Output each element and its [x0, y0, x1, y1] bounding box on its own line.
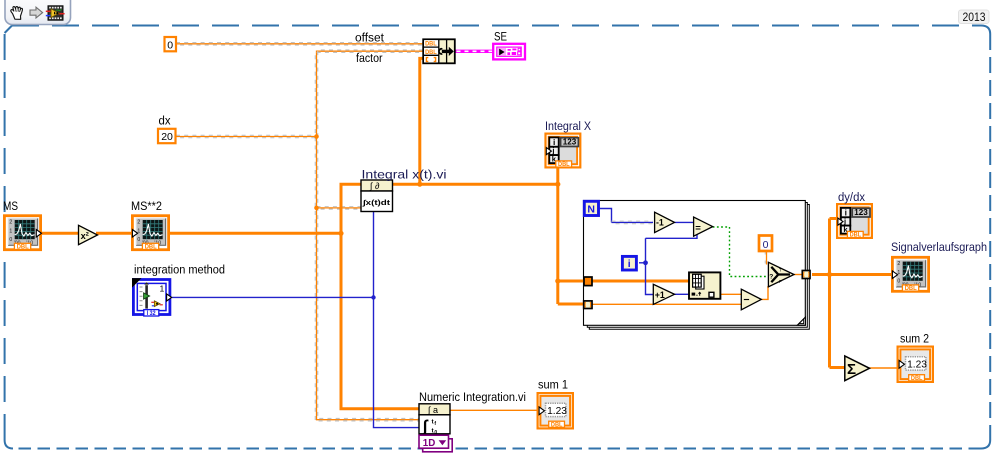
svg-text:sum 2: sum 2	[900, 332, 929, 346]
svg-text:dx: dx	[159, 114, 171, 128]
svg-text:offset: offset	[355, 31, 385, 45]
svg-text:+1: +1	[655, 290, 665, 300]
svg-text:I 32: I 32	[147, 311, 157, 317]
svg-text:MS**2: MS**2	[131, 199, 162, 213]
svg-text:Numeric Integration.vi: Numeric Integration.vi	[419, 390, 526, 404]
svg-text:Signalverlaufsgraph: Signalverlaufsgraph	[891, 240, 987, 254]
svg-text:integration method: integration method	[134, 263, 225, 277]
svg-text:-1: -1	[656, 218, 664, 228]
svg-text:∫x(t)dt: ∫x(t)dt	[362, 198, 391, 207]
svg-text:?: ?	[769, 273, 773, 280]
svg-text:sum 1: sum 1	[538, 377, 568, 391]
svg-text:DBL: DBL	[425, 49, 437, 56]
svg-text:2013: 2013	[963, 10, 986, 24]
svg-text:MS: MS	[3, 199, 18, 213]
svg-text:factor: factor	[356, 51, 383, 65]
svg-text:Σ: Σ	[847, 361, 856, 378]
svg-text:0: 0	[167, 39, 173, 51]
svg-text:T: T	[779, 267, 782, 272]
svg-text:dy/dx: dy/dx	[838, 190, 865, 204]
svg-text:20: 20	[161, 131, 173, 143]
svg-text:−: −	[743, 294, 749, 306]
svg-text:DBL: DBL	[425, 41, 437, 48]
svg-text:=: =	[695, 223, 701, 234]
svg-text:1: 1	[160, 284, 165, 294]
svg-text:1D: 1D	[423, 438, 436, 449]
svg-text:x²: x²	[81, 231, 89, 241]
svg-text:N: N	[587, 203, 595, 215]
svg-text:SE: SE	[494, 30, 507, 44]
svg-text:0: 0	[763, 239, 769, 251]
svg-text:i: i	[628, 258, 631, 270]
svg-text:Integral X: Integral X	[545, 119, 591, 133]
svg-text:∫ ∂: ∫ ∂	[369, 181, 380, 191]
svg-text:Integral x(t).vi: Integral x(t).vi	[362, 168, 447, 182]
svg-text:∫ a: ∫ a	[427, 405, 438, 415]
svg-text:F: F	[779, 279, 782, 284]
